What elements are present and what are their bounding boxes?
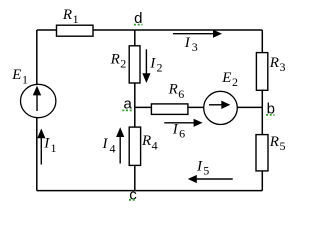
svg-text:I3: I3	[184, 35, 198, 54]
current arrow I5	[188, 159, 233, 184]
current arrow I1	[37, 129, 56, 165]
node c	[129, 187, 137, 204]
source E1	[11, 67, 56, 118]
svg-text:R5: R5	[269, 134, 286, 153]
svg-text:R1: R1	[62, 7, 79, 26]
resistor R5	[256, 134, 285, 171]
resistor R6	[151, 82, 188, 115]
current arrow I6	[164, 119, 202, 141]
wire middle vertical d-c	[134, 30, 136, 191]
svg-text:R2: R2	[110, 51, 127, 70]
wire middle horizontal a-b	[135, 106, 262, 108]
node d	[134, 10, 143, 27]
wire bottom c	[37, 190, 262, 192]
svg-text:R4: R4	[141, 133, 158, 152]
resistor R4	[129, 127, 157, 165]
svg-text:c: c	[129, 187, 137, 204]
svg-text:E1: E1	[11, 67, 28, 86]
svg-text:I1: I1	[43, 136, 56, 155]
wire top d	[37, 29, 262, 31]
resistor R1	[57, 7, 94, 36]
svg-text:I4: I4	[102, 136, 116, 155]
resistor R2	[110, 46, 140, 83]
wire left	[36, 30, 38, 191]
current arrow I3	[173, 30, 222, 55]
svg-text:I5: I5	[196, 159, 209, 178]
source E2	[204, 70, 238, 125]
svg-text:I6: I6	[172, 121, 185, 140]
svg-text:R6: R6	[168, 82, 185, 101]
svg-text:E2: E2	[221, 70, 238, 89]
resistor R3	[256, 53, 285, 91]
wire right	[261, 30, 263, 191]
svg-text:R3: R3	[269, 55, 286, 74]
svg-text:I2: I2	[149, 55, 162, 74]
current arrow I2	[142, 49, 162, 83]
current arrow I4	[102, 127, 125, 163]
node a	[122, 96, 132, 113]
node b	[266, 101, 275, 118]
